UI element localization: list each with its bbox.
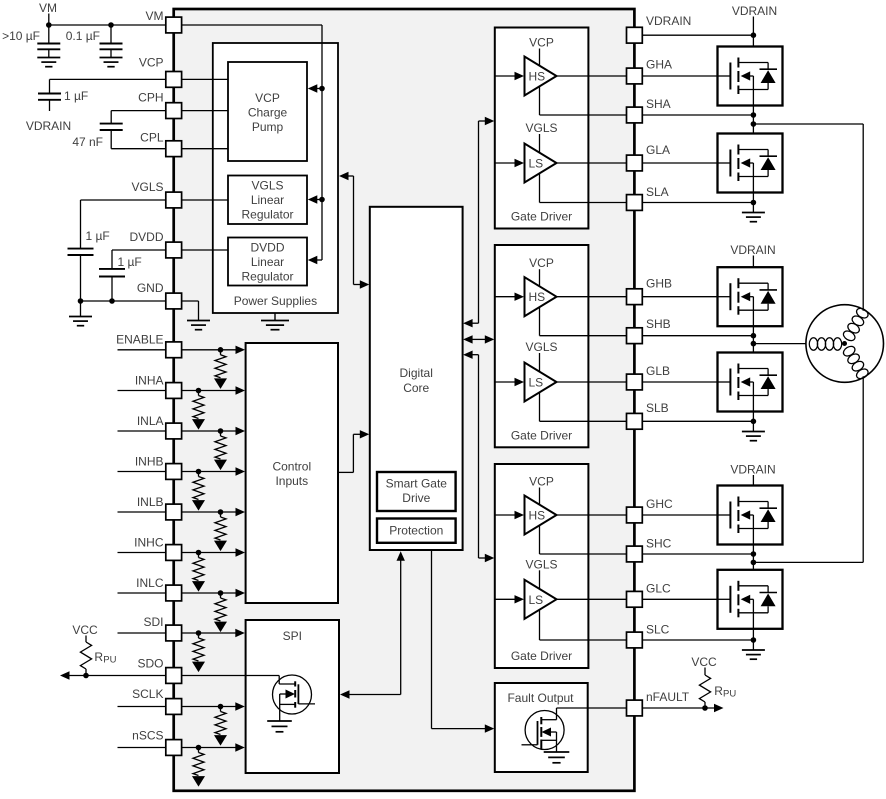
wire power supplies to digital core (339, 172, 369, 289)
wire nFAULT (external) (642, 704, 723, 712)
svg-text:VGLS: VGLS (131, 180, 163, 194)
pin SLC (627, 623, 670, 648)
svg-text:Linear: Linear (251, 255, 284, 269)
wire SLA (642, 177, 756, 213)
gate driver A VCP label (529, 36, 554, 50)
pin VCP (139, 56, 182, 88)
svg-text:Pump: Pump (252, 120, 284, 134)
svg-text:Regulator: Regulator (241, 270, 293, 284)
pulldown resistor at INLA (214, 428, 227, 470)
svg-text:nSCS: nSCS (132, 729, 163, 743)
svg-text:SDI: SDI (143, 615, 163, 629)
wire SHB (642, 310, 756, 352)
svg-text:GHA: GHA (646, 58, 672, 72)
wire nFAULT inside fault block (557, 707, 627, 709)
gate driver C LS input wire (495, 595, 524, 603)
wire CPH pin to charge pump (182, 110, 228, 112)
svg-text:GHC: GHC (646, 497, 673, 511)
wire SDI (external) (118, 632, 166, 634)
wire INLC (to logic) (182, 589, 245, 597)
device body (gate driver IC) (174, 9, 635, 791)
svg-text:VDRAIN: VDRAIN (732, 4, 777, 18)
svg-text:HS: HS (529, 290, 546, 304)
gate driver A HS input wire (495, 72, 524, 80)
power supplies block (213, 43, 338, 313)
svg-text:VCC: VCC (72, 623, 98, 637)
svg-text:PU: PU (723, 689, 736, 700)
svg-text:Control: Control (272, 460, 311, 474)
wire SLC (642, 613, 756, 650)
wire VGLS pin to regulator (182, 199, 228, 201)
SPI block (246, 620, 339, 773)
ground at GND pin (internal) (187, 321, 210, 330)
gate driver A LS input wire (495, 159, 524, 167)
svg-text:SCLK: SCLK (132, 687, 163, 701)
DVDD linear regulator block (228, 238, 307, 286)
svg-text:Protection: Protection (389, 524, 443, 538)
pin VGLS (131, 180, 181, 208)
wire INLC (external) (118, 592, 166, 594)
pulldown resistor at nSCS (192, 745, 205, 787)
wire phase C to motor (753, 376, 863, 562)
wire SDO (external output) (60, 671, 166, 679)
gate driver C VCP stub wire (539, 488, 541, 505)
wire GHC (557, 514, 627, 516)
wire digital core gate driver bus 1 (463, 319, 478, 327)
gate driver B LS input wire (495, 378, 524, 386)
svg-text:Power Supplies: Power Supplies (234, 294, 317, 308)
svg-text:VGLS: VGLS (525, 121, 557, 135)
wire INHA (to logic) (182, 386, 245, 394)
svg-text:Gate Driver: Gate Driver (511, 428, 572, 442)
gate driver C VGLS stub wire (539, 570, 541, 589)
node VDRAIN (VCP capacitor) (26, 100, 71, 133)
wire CPH (111, 111, 166, 124)
svg-text:VGLS: VGLS (251, 179, 283, 193)
wire phase A to motor (753, 124, 863, 311)
pin INLC (136, 576, 181, 601)
svg-text:VDRAIN: VDRAIN (730, 243, 775, 257)
ground for >10 uF capacitor (37, 49, 60, 66)
pin GLC (627, 582, 672, 608)
power supplies ground (261, 313, 289, 330)
wire DVDD pin to regulator (182, 249, 228, 251)
svg-text:HS: HS (529, 70, 546, 84)
wire GHB (557, 296, 627, 298)
svg-text:Digital: Digital (400, 366, 433, 380)
node VDRAIN (phase B supply) (730, 243, 775, 283)
gate driver B HS buffer (525, 277, 557, 316)
capacitor 47 nF (72, 124, 122, 149)
wire digital core to gate driver A (479, 117, 495, 323)
gate driver B LS source wire (540, 392, 627, 421)
ground at GND net (69, 301, 92, 326)
wire VGLS capacitor to GND (80, 255, 82, 301)
wire CPL pin to charge pump (182, 148, 228, 150)
gate driver A HS buffer (525, 57, 557, 96)
svg-text:GHB: GHB (646, 277, 672, 291)
svg-text:INLA: INLA (137, 414, 164, 428)
svg-text:VCP: VCP (529, 475, 554, 489)
wire GLB pin to low-side B gate (642, 381, 717, 383)
wire SHC (642, 529, 756, 570)
ground for 0.1 uF capacitor (100, 49, 123, 66)
wire nSCS (to logic) (182, 743, 245, 751)
wire CPL (111, 130, 166, 149)
wire INLB (external) (118, 511, 166, 513)
pulldown resistor at SCLK (214, 704, 227, 746)
wire SCLK (to logic) (182, 702, 245, 710)
wire INHB (to logic) (182, 467, 245, 475)
wire GHB pin to high-side B gate (642, 296, 717, 298)
svg-text:VCP: VCP (139, 56, 164, 70)
pin SHB (627, 317, 671, 344)
svg-text:LS: LS (529, 376, 544, 390)
wire INHA (external) (118, 390, 166, 392)
transistor high-side B (external NMOS) (718, 267, 783, 326)
wire SLB (642, 396, 756, 432)
wire GLC pin to low-side C gate (642, 598, 717, 600)
wire GLA pin to low-side A gate (642, 162, 717, 164)
pin ENABLE (116, 333, 181, 358)
pulldown resistor at INHA (192, 388, 205, 430)
pin SCLK (132, 687, 181, 714)
svg-text:DVDD: DVDD (250, 241, 284, 255)
pin SLB (627, 401, 669, 429)
transistor low-side A (external NMOS) (718, 134, 783, 193)
wire INLA (external) (118, 430, 166, 432)
wire digital core to SPI block (340, 551, 405, 698)
svg-text:SLC: SLC (646, 623, 670, 637)
svg-text:Drive: Drive (402, 491, 430, 505)
gate driver C VCP label (529, 475, 554, 489)
wire SCLK (external) (118, 706, 166, 708)
wire VM to regulators (182, 25, 325, 264)
wire GND pin to ground (182, 301, 199, 321)
wire VM (46, 22, 166, 28)
pulldown resistor at INLC (214, 590, 227, 632)
wire INLA (to logic) (182, 427, 245, 435)
svg-text:VGLS: VGLS (525, 557, 557, 571)
pin nFAULT (627, 690, 690, 716)
svg-text:VDRAIN: VDRAIN (26, 119, 71, 133)
wire INLB (to logic) (182, 508, 245, 516)
capacitor 0.1 uF (66, 25, 123, 49)
svg-text:LS: LS (529, 157, 544, 171)
svg-text:0.1 µF: 0.1 µF (66, 29, 100, 43)
svg-text:DVDD: DVDD (129, 230, 163, 244)
wire SHA (642, 90, 756, 134)
wire VDRAIN pin to drain rail (642, 32, 756, 38)
svg-text:VCP: VCP (529, 256, 554, 270)
pin GHC (627, 497, 674, 523)
svg-text:ENABLE: ENABLE (116, 333, 163, 347)
svg-text:1 µF: 1 µF (64, 89, 88, 103)
pulldown resistor at INLB (214, 509, 227, 551)
svg-text:VCP: VCP (529, 36, 554, 50)
svg-text:CPH: CPH (138, 91, 163, 105)
wire phase B to motor (753, 343, 806, 345)
wire DVDD (112, 250, 166, 269)
ground in fault output block (544, 752, 570, 763)
svg-text:INHA: INHA (135, 374, 164, 388)
svg-text:VCP: VCP (255, 91, 280, 105)
gate driver B VCP label (529, 256, 554, 270)
pin VM (146, 9, 182, 33)
wire INHC (external) (118, 552, 166, 554)
node VDRAIN (phase C supply) (730, 462, 775, 501)
capacitor 1 uF (DVDD) (99, 255, 142, 277)
svg-text:SHA: SHA (646, 97, 671, 111)
gate driver C HS source wire (540, 525, 627, 554)
pin GLA (627, 143, 671, 171)
pin SDI (143, 615, 181, 641)
capacitor 1 uF (VGLS) (68, 229, 110, 255)
svg-text:INHC: INHC (134, 536, 164, 550)
gate driver A LS source wire (540, 173, 627, 202)
svg-text:SHC: SHC (646, 536, 672, 550)
pin DVDD (129, 230, 181, 258)
svg-text:GLC: GLC (646, 582, 671, 596)
ground at SLC (742, 650, 765, 659)
svg-text:VM: VM (39, 1, 57, 15)
wire digital core to fault output block (432, 550, 495, 733)
wire VGLS (81, 200, 166, 249)
node VM (39, 1, 57, 25)
pin SHC (627, 536, 672, 561)
pin CPL (140, 131, 181, 157)
svg-text:VDRAIN: VDRAIN (646, 14, 691, 28)
gate driver A LS buffer (525, 144, 557, 183)
transistor low-side B (external NMOS) (718, 353, 783, 412)
pin SDO (137, 656, 181, 683)
pin SLA (627, 185, 669, 211)
svg-text:Linear: Linear (251, 193, 284, 207)
pulldown resistor at INHC (192, 550, 205, 592)
pin GND (137, 281, 182, 309)
gate driver B HS input wire (495, 293, 524, 301)
gate driver A VCP stub wire (539, 49, 541, 66)
gate driver B VCP stub wire (539, 269, 541, 286)
pin INHB (135, 455, 182, 480)
resistor RPU (SDO pull-up) (72, 623, 116, 676)
svg-text:R: R (94, 650, 103, 664)
gate driver A VGLS stub wire (539, 134, 541, 153)
fault output block (495, 683, 588, 772)
ground at SLA (742, 213, 765, 222)
transistor high-side C (external NMOS) (718, 486, 783, 545)
wire GLB (557, 381, 627, 383)
pulldown resistor at ENABLE (214, 347, 227, 389)
gate driver B block (495, 245, 589, 447)
gate driver C LS source wire (540, 610, 627, 641)
pulldown resistor at INHB (192, 469, 205, 511)
svg-text:R: R (714, 684, 723, 698)
capacitor 1 uF (VCP-VDRAIN) (38, 89, 88, 103)
svg-text:SPI: SPI (283, 629, 302, 643)
svg-text:VCC: VCC (691, 655, 717, 669)
pin VDRAIN (627, 14, 692, 43)
pin INLA (137, 414, 182, 439)
gate driver B HS source wire (540, 307, 627, 336)
svg-text:1 µF: 1 µF (86, 229, 110, 243)
digital core block (370, 207, 463, 550)
svg-text:GLA: GLA (646, 143, 670, 157)
pin INHC (134, 536, 181, 561)
svg-text:Regulator: Regulator (241, 208, 293, 222)
svg-text:VGLS: VGLS (525, 340, 557, 354)
gate driver B VGLS label (525, 340, 557, 354)
svg-text:Inputs: Inputs (275, 474, 308, 488)
svg-text:Gate Driver: Gate Driver (511, 210, 572, 224)
svg-text:SDO: SDO (137, 656, 163, 670)
wire GHA pin to high-side A gate (642, 75, 717, 77)
svg-text:LS: LS (529, 593, 544, 607)
control inputs block (246, 343, 338, 603)
resistor RPU (nFAULT pull-up) (691, 655, 736, 708)
protection block (377, 519, 456, 543)
pin CPH (138, 91, 181, 119)
wire ENABLE (external) (118, 349, 166, 351)
transistor low-side C (external NMOS) (718, 570, 783, 629)
svg-text:PU: PU (103, 655, 116, 666)
transistor high-side A (external NMOS) (718, 47, 783, 106)
wire ENABLE (to logic) (182, 346, 245, 354)
svg-text:GLB: GLB (646, 364, 670, 378)
wire VCP (50, 79, 166, 93)
gate driver C HS input wire (495, 511, 524, 519)
wire GHC pin to high-side C gate (642, 514, 717, 516)
wire GHA (557, 75, 627, 77)
wire GLA (557, 162, 627, 164)
wire nSCS (external) (118, 747, 166, 749)
wire SDO into SPI block (182, 675, 280, 677)
pin INLB (137, 495, 182, 520)
wire INHC (to logic) (182, 548, 245, 556)
svg-text:INHB: INHB (135, 455, 164, 469)
gate driver C VGLS label (525, 557, 557, 571)
wire INHB (external) (118, 471, 166, 473)
gate driver C HS buffer (525, 496, 557, 535)
svg-text:47 nF: 47 nF (72, 135, 103, 149)
svg-text:nFAULT: nFAULT (646, 690, 690, 704)
VCP charge pump block (228, 62, 307, 161)
pin GHB (627, 277, 673, 305)
capacitor >10 uF (2, 25, 60, 49)
gate driver A HS source wire (540, 86, 627, 115)
wire digital core gate driver bus 2 (463, 335, 494, 343)
svg-text:SHB: SHB (646, 317, 671, 331)
wire control inputs to digital core (338, 430, 369, 472)
pin GLB (627, 364, 671, 390)
gate driver A block (495, 28, 589, 229)
svg-text:VDRAIN: VDRAIN (730, 462, 775, 476)
wire SDI (to logic) (182, 629, 245, 637)
gate driver C block (495, 464, 589, 668)
ground in SPI block (267, 721, 292, 732)
gate driver B VGLS stub wire (539, 353, 541, 372)
svg-text:Core: Core (403, 381, 429, 395)
svg-text:1 µF: 1 µF (118, 255, 142, 269)
smart gate drive block (377, 472, 456, 511)
pulldown resistor at SDI (192, 630, 205, 672)
svg-text:Gate Driver: Gate Driver (511, 649, 572, 663)
svg-text:INLC: INLC (136, 576, 164, 590)
svg-text:Smart Gate: Smart Gate (386, 477, 448, 491)
transistor in SPI block (open drain SDO) (273, 675, 316, 721)
gate driver A VGLS label (525, 121, 557, 135)
svg-text:SLA: SLA (646, 185, 669, 199)
wire GND (78, 298, 166, 304)
svg-text:SLB: SLB (646, 401, 669, 415)
pin SHA (627, 97, 671, 123)
ground at SLB (742, 432, 765, 441)
wire GLC (557, 598, 627, 600)
transistor in fault output block (open drain nFAULT) (522, 708, 565, 752)
gate driver C LS buffer (525, 580, 557, 619)
pin nSCS (132, 729, 181, 756)
node VDRAIN (phase A supply) (732, 4, 777, 63)
svg-text:Charge: Charge (248, 106, 288, 120)
svg-text:VM: VM (146, 9, 164, 23)
wire VCP pin to charge pump (182, 78, 228, 80)
svg-text:HS: HS (529, 509, 546, 523)
svg-text:GND: GND (137, 281, 164, 295)
wire digital core to gate driver C (463, 351, 494, 563)
svg-text:INLB: INLB (137, 495, 164, 509)
motor (3-phase BLDC) (806, 305, 884, 383)
VGLS linear regulator block (228, 176, 307, 225)
gate driver B LS buffer (525, 363, 557, 402)
pin INHA (135, 374, 182, 399)
wire DVDD capacitor to GND (111, 277, 113, 302)
svg-text:Fault Output: Fault Output (507, 691, 574, 705)
pin GHA (627, 58, 673, 84)
svg-text:>10 µF: >10 µF (2, 29, 40, 43)
svg-text:CPL: CPL (140, 131, 164, 145)
